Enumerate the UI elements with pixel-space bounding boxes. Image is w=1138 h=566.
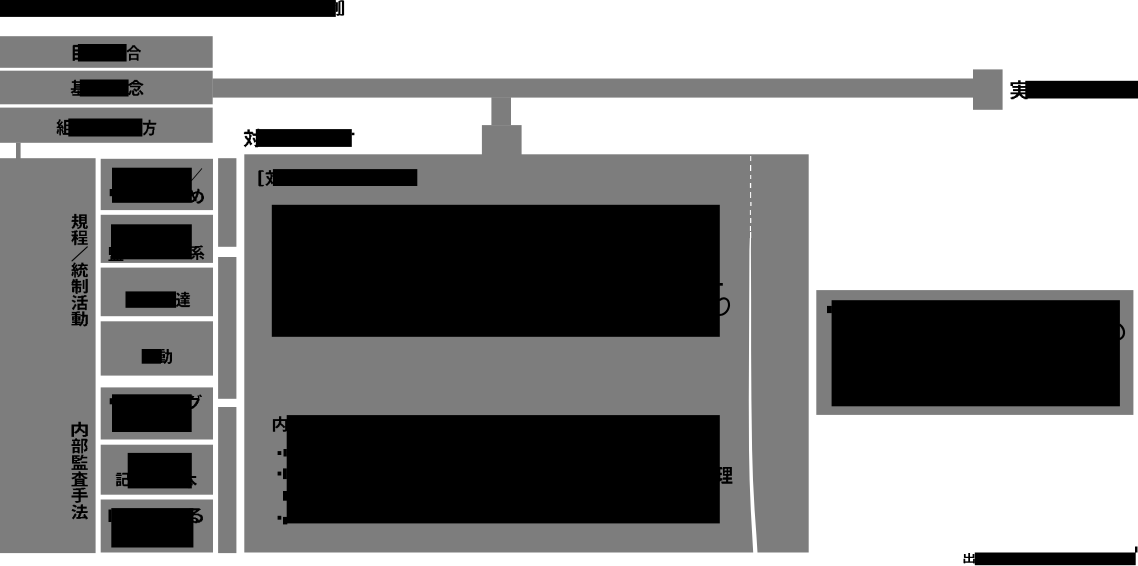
title closing bracket ] (340, 0, 344, 15)
vertical label 規程／統制活動 (72, 214, 88, 327)
right box leading dash fragment (827, 306, 832, 313)
bullet3 text sliver (283, 517, 287, 525)
inner box: row7 監査に関する規程 (101, 500, 213, 553)
vertical connector (narrow) from bar down (491, 98, 511, 126)
right box fragment ) (left part covered) (1120, 325, 1125, 340)
row3 trailing char 達 (176, 292, 190, 307)
torn edge speckles (750, 156, 752, 238)
box: 基本理念 (row 2 top-left) (0, 71, 213, 105)
center panel large redaction block 2 (287, 415, 720, 523)
box2 leading char 基 (partially covered) (71, 80, 86, 96)
inner box: row4 活動 (101, 321, 213, 375)
bracket strip segment B (218, 257, 236, 399)
row5 leading sliver (110, 398, 112, 404)
row1 slash ／ end of line1 (191, 168, 202, 181)
box2 trailing char 念 (128, 80, 144, 96)
vertical label 内部監査手法 (72, 422, 88, 520)
bracket strip segment C (218, 407, 236, 553)
block1 right fragment nub (720, 283, 723, 286)
row4 trailing char 動 (left part covered) (157, 349, 173, 364)
heading trailing stroke fragment (352, 133, 355, 136)
center label char 対 (partially covered) (266, 170, 282, 186)
row6 leading char 記 (116, 473, 130, 486)
box1 text redaction (78, 44, 127, 62)
inner box: row3 情報伝達 (101, 268, 213, 317)
box1 trailing char 合 (127, 45, 141, 61)
block1 right fragment curl (720, 298, 729, 315)
center panel 対象〜の設計 (244, 154, 808, 552)
出 of 出典 bottom right (964, 553, 975, 563)
right box (816, 290, 1133, 415)
horizontal bar from 基本理念 box to right terminal (213, 79, 973, 98)
row7 leading sliver (109, 510, 112, 523)
section heading char 内 (273, 416, 288, 432)
box: 組織・考え方 (row 3 top-left) (0, 108, 213, 143)
inner box: row2 規程の体系 (101, 215, 213, 263)
box2 text redaction (80, 80, 129, 97)
left panel label block (規程／統制活動・内部監査手法) (0, 158, 96, 553)
bracket strip segment A (218, 158, 236, 247)
row2 text redaction (111, 224, 192, 259)
box3 trailing char 方 (143, 120, 157, 136)
row5 text redaction (112, 394, 192, 432)
box3 leading char 組 (partially covered) (57, 119, 73, 135)
bullet2 trailing char 理 (left part covered) (717, 467, 733, 484)
row3 text redaction (126, 291, 177, 307)
small connector from row-3 box down to left panel (16, 143, 21, 159)
bar-end text redaction 実〜 (1025, 81, 1138, 99)
row6 trailing char 本 (mostly covered) (182, 473, 197, 488)
row1 trailing char め line2 (189, 189, 205, 204)
bullet1 text sliver (284, 449, 287, 457)
出典 line right-edge fragment (1135, 547, 1138, 553)
heading text redaction 対〜 (256, 129, 352, 147)
row4 text redaction (142, 349, 161, 364)
row2 leading char (sliver visible) (108, 247, 123, 262)
center label opening bracket [ (258, 170, 264, 186)
inner box: row5 モニタリング (101, 387, 213, 439)
heading char 対 (partially covered) (244, 129, 262, 147)
inner box: row1 規程類／とりきめ (101, 159, 213, 210)
center label redaction (273, 169, 417, 186)
continuation line sliver (283, 491, 287, 501)
title redaction bar (0, 0, 336, 17)
row1 text redaction (112, 168, 192, 203)
inner box: row6 監査の基本 (101, 445, 213, 495)
torn page edge (white wavy line) (749, 238, 758, 553)
row6 text redaction (128, 453, 192, 489)
center panel large redaction block 1 (272, 205, 720, 337)
box3 text redaction (68, 119, 142, 137)
terminal block at right end of bar (973, 69, 1003, 109)
出典 line redaction (975, 553, 1136, 566)
right box redaction block (832, 300, 1120, 406)
実 of 実施要領 beside terminal (1011, 80, 1029, 99)
box1 leading char 目 (partially covered) (73, 45, 85, 61)
vertical connector (wide) into center panel (482, 125, 522, 154)
row7 text redaction (111, 508, 193, 547)
bullet dot 3 (278, 516, 282, 520)
row7 trailing char る (left part covered) (187, 508, 203, 523)
box: 目的適合 (row 1 top-left) (0, 36, 213, 68)
row1 line2 leading sliver (110, 189, 112, 196)
bullet dot 2 (278, 472, 282, 476)
bullet dot 1 (278, 451, 282, 455)
row2 trailing char 系 (190, 246, 204, 260)
row5 trailing char グ (left part covered) (186, 395, 202, 411)
title trailing char 例 (partially covered) (325, 1, 340, 16)
bullet2 text sliver (283, 468, 287, 479)
